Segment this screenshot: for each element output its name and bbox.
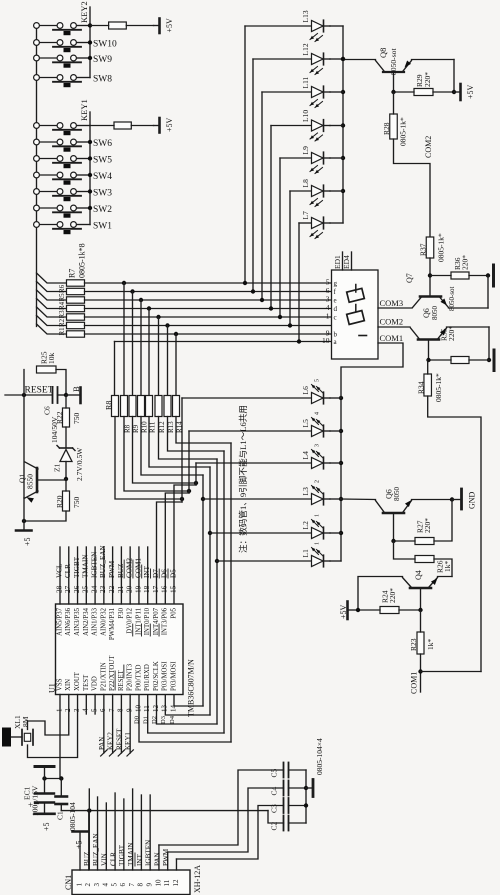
svg-text:26: 26 [73,585,81,593]
svg-text:D2: D2 [151,716,158,724]
LED L11 [260,76,330,302]
label COM3 [380,298,404,308]
svg-text:L1: L1 [301,549,310,558]
wire VDD column [88,789,90,870]
svg-text:IGBTEN: IGBTEN [145,839,153,866]
wire R37 to Q7 base [428,258,432,297]
svg-text:R6: R6 [58,284,66,293]
svg-text:+5V: +5V [165,117,174,132]
svg-text:Z1: Z1 [53,463,62,472]
svg-text:15: 15 [169,585,177,593]
label U1 [47,683,56,693]
svg-text:7: 7 [108,708,116,712]
label XH-12A [193,865,202,893]
wire VSS rail [42,776,63,780]
resistor R37 0805-1k* [419,233,446,262]
resistor R36 220* [430,255,490,279]
IC U1 TMB36C807M/N box [56,604,184,695]
svg-text:27: 27 [64,585,72,593]
svg-text:D4: D4 [169,715,176,724]
transistor Q6 (LED driver) [376,487,412,542]
switch KEY1 row [34,123,90,136]
wire D5 to bus [174,485,196,604]
svg-text:AIN0/P32: AIN0/P32 [100,607,107,636]
svg-text:GND: GND [467,491,476,509]
svg-text:0805-1k*8: 0805-1k*8 [77,243,86,278]
svg-text:10: 10 [154,879,162,887]
svg-text:220*: 220* [461,255,470,270]
label R7 [67,269,76,278]
switch SW10 [34,40,117,53]
svg-text:SW10: SW10 [93,40,117,50]
label KEY1 [79,99,89,121]
svg-text:10: 10 [134,705,142,713]
svg-text:VSS: VSS [56,678,63,691]
resistor R27 220* [391,500,452,545]
svg-text:P01/RXD: P01/RXD [144,664,151,691]
svg-text:d: d [334,305,338,313]
wire crystal to XOUT [28,695,78,758]
label COM1 [380,333,404,343]
svg-text:8050: 8050 [431,306,439,321]
label R8 group [104,401,113,410]
svg-text:INT: INT [143,565,151,578]
switch SW5 [34,156,113,169]
svg-text:4: 4 [82,708,90,712]
resistor R24 220* [356,588,423,614]
LED L1 [217,542,330,567]
labels D0-D4 [134,715,176,724]
LED L8 [288,179,330,328]
labels R8-R14 [123,421,183,433]
svg-text:BUZ_EAN: BUZ_EAN [92,832,100,866]
svg-text:4: 4 [102,883,110,887]
svg-text:1: 1 [75,883,83,887]
svg-text:P20/INT3: P20/INT3 [127,663,134,691]
wire COM2 net to R37 [394,139,431,237]
wire KEY1 bus [89,112,91,225]
svg-text:RESET: RESET [25,386,54,396]
LED L3 [203,480,330,505]
+5 supply (CN1) [73,832,88,850]
svg-text:9: 9 [125,708,133,712]
svg-text:PWM4/P31: PWM4/P31 [109,608,116,640]
wire U1 pin8 (RESET) [115,695,124,757]
svg-text:D1: D1 [142,716,149,724]
wire crystal to XIN [28,695,69,736]
svg-text:COM2: COM2 [126,558,134,578]
switch SW9 [34,55,113,68]
switch SW3 [34,189,113,202]
svg-text:L2: L2 [301,521,310,530]
svg-text:14: 14 [169,705,177,713]
svg-text:R23: R23 [409,638,418,651]
svg-text:3: 3 [73,708,81,712]
wire LED common bus (L7-L13) [330,26,345,223]
wire C3 to CN1 pin12 [176,806,283,871]
svg-text:+5: +5 [23,537,32,546]
wire C5 to CN1 pin10 [159,770,284,845]
svg-text:R28: R28 [382,122,391,135]
wire U1 pin1 VSS [59,695,61,779]
label 0805-1k*8 [77,243,86,278]
svg-text:8: 8 [137,883,145,887]
wire Q6 emitter to GND [412,497,461,501]
svg-text:L8: L8 [301,179,310,188]
svg-text:1: 1 [315,514,321,517]
resistor R26 1k* [394,541,453,577]
LED L2 [210,514,330,539]
crystal XL1 8M [2,715,33,746]
svg-text:Q8: Q8 [378,48,388,58]
resistor R35 220* [426,326,489,364]
svg-text:8050-sot: 8050-sot [448,286,456,311]
+5V supply (KEY1) [154,117,174,132]
svg-text:5: 5 [110,883,118,887]
wire Q8 emitter to +5V [412,60,455,93]
wire LED common bus (L1-L6) [330,396,343,561]
svg-text:23: 23 [99,585,107,593]
label TMB36C807M/N [186,659,195,717]
svg-text:8550: 8550 [26,474,35,489]
capacitors C2-C5 0805-104x4 [270,763,306,831]
svg-text:L6: L6 [301,386,310,395]
svg-text:1k*: 1k* [443,561,452,573]
U1 INT3 pin-name overline [123,665,125,678]
svg-text:COM2: COM2 [424,136,433,158]
LED L5 [189,412,330,437]
CN1 INT overline [134,853,136,866]
connector CN1 XH-12A box [72,870,190,895]
U1 top INT name overlines [133,624,159,636]
svg-text:10k: 10k [47,353,56,365]
CN1 net labels [83,832,170,866]
svg-text:+5V: +5V [339,604,348,619]
svg-text:P03/MOSI: P03/MOSI [162,661,169,691]
svg-text:AIN5/P37: AIN5/P37 [56,607,63,636]
svg-text:1: 1 [326,312,330,321]
wire C2 to ground rail [268,811,284,823]
svg-text:P30: P30 [118,607,125,618]
LED L9 [278,146,330,319]
LED L6 [182,379,330,404]
svg-text:24: 24 [90,585,98,593]
+5V supply (Q4) [339,602,358,620]
svg-text:R1: R1 [58,327,66,336]
label COM1 net [409,672,418,694]
wire U1 pin9 (KEY1) [124,695,133,757]
switch SW2 [34,205,113,218]
svg-text:SW3: SW3 [93,189,112,199]
wire Q6 emitter to +5V [447,327,492,362]
svg-text:P21/XTIN: P21/XTIN [100,662,107,691]
svg-text:XOUT: XOUT [74,671,81,691]
+5V supply (KEY2) [154,18,174,33]
terminal B [66,386,81,403]
svg-text:+5V: +5V [165,18,174,33]
svg-text:PWM: PWM [108,560,116,578]
svg-text:P03/MOSI: P03/MOSI [170,661,177,691]
svg-text:0805-104×4: 0805-104×4 [315,738,324,775]
display pin ED1 stub [333,252,342,270]
svg-text:22: 22 [108,585,116,593]
switch SW1 [34,222,113,235]
LED L10 [269,110,330,311]
wire U1 pin4 stub [85,695,87,715]
svg-text:2: 2 [84,883,92,887]
svg-text:D5: D5 [169,569,177,578]
svg-text:SW6: SW6 [93,139,112,149]
svg-text:COM2: COM2 [380,317,404,327]
svg-text:Q6: Q6 [422,308,431,318]
switch SW8 [34,75,113,88]
svg-text:P05: P05 [170,607,177,618]
display pin numbers and letters [322,278,338,347]
ground (C2-C5) [313,738,324,796]
resistor network R7 (R1-R7 0805-1k*8) [67,280,85,337]
svg-text:c: c [334,314,337,322]
wire Q8 collector to LED bus [341,57,376,61]
svg-text:TIGBT: TIGBT [73,556,81,578]
svg-text:100μ/16V: 100μ/16V [31,785,40,816]
LED L13 [243,10,330,285]
svg-text:2.7V/0.5W: 2.7V/0.5W [75,447,84,481]
svg-text:D0: D0 [134,716,141,724]
svg-text:KEY1: KEY1 [79,99,89,121]
svg-text:C1: C1 [56,811,65,820]
svg-text:L3: L3 [301,487,310,496]
+5V rail (R36) [492,265,495,286]
svg-text:220*: 220* [423,518,432,533]
svg-text:VDD: VDD [92,676,99,691]
svg-text:L13: L13 [301,10,310,22]
label CN1 [64,875,73,890]
resistor R34 0805-1k* [417,360,444,402]
svg-text:1k*: 1k* [426,639,435,651]
svg-text:20: 20 [126,585,134,593]
svg-text:TIGBT: TIGBT [118,844,126,866]
svg-text:D3: D3 [160,716,167,724]
svg-text:16: 16 [161,585,169,593]
wire data bus columns (nested) [182,398,231,742]
svg-text:PAN: PAN [153,851,161,866]
labels R1-R6 [58,284,66,335]
svg-text:CN1: CN1 [64,875,73,890]
svg-text:0805-1k*: 0805-1k* [437,233,446,262]
svg-text:SW2: SW2 [93,205,112,215]
display digit glyph 1 [347,285,365,303]
svg-text:TMAIN: TMAIN [82,554,90,578]
svg-text:VIN: VIN [101,852,109,866]
svg-text:COM1: COM1 [134,558,142,578]
LED L7 [297,211,330,344]
svg-text:220*: 220* [388,588,397,603]
wires CN1 pin stubs [89,789,168,870]
wire RESET node [5,370,66,499]
svg-text:P00/TXD: P00/TXD [135,664,142,691]
svg-text:Q7: Q7 [405,273,414,283]
svg-text:28: 28 [55,585,63,593]
transistor Q8 [376,48,412,92]
svg-text:L9: L9 [301,146,310,155]
U1 net label overlines [124,560,168,578]
svg-text:BUZ_EAN: BUZ_EAN [99,544,107,578]
wire R34 to COM1 net [428,396,481,672]
svg-text:U1: U1 [47,683,56,693]
svg-text:L12: L12 [301,43,310,55]
svg-text:9: 9 [145,883,153,887]
wire COM2 from display [378,326,410,328]
wire CN1 pin1 to +5 [79,833,81,871]
svg-text:PAN: PAN [98,737,106,750]
svg-text:18: 18 [143,585,151,593]
resistor R23 1k* [409,610,435,654]
svg-text:CLR: CLR [109,852,117,866]
svg-text:6: 6 [119,883,127,887]
wires segment lines down to resistor array R8 [115,281,179,396]
svg-text:750: 750 [72,413,81,425]
note (Chinese) [237,405,248,553]
display digit glyph 2 [347,305,365,325]
label KEY2 [79,1,89,23]
label COM2 [380,317,404,327]
svg-text:2: 2 [64,708,72,712]
svg-text:4: 4 [315,412,321,415]
transistor Q1 8550 [18,462,66,503]
svg-text:3: 3 [315,444,321,447]
transistor Q6 (COM2 driver) [411,306,447,361]
svg-text:L10: L10 [301,110,310,122]
svg-text:R22: R22 [55,411,64,424]
svg-text:10: 10 [322,336,330,345]
svg-text:INT: INT [136,853,144,866]
svg-text:SW9: SW9 [93,55,112,65]
svg-text:BUZ: BUZ [117,564,125,578]
wire Q4 emitter [438,576,453,578]
svg-text:1: 1 [315,542,321,545]
svg-text:L7: L7 [301,211,310,220]
LED L12 [251,43,330,294]
svg-text:C6: C6 [43,406,52,415]
svg-text:KEY1: KEY1 [124,732,132,750]
svg-text:R5: R5 [58,293,66,302]
svg-text:+5: +5 [74,840,83,849]
svg-text:D7: D7 [152,569,160,578]
svg-text:TMAIN: TMAIN [127,842,135,866]
zener Z1 2.7V/0.5W [53,427,84,481]
svg-text:R3: R3 [58,310,66,319]
wire COM1 node [418,654,481,692]
wire Q6 collector to LED bus [341,498,376,501]
svg-text:R4: R4 [58,301,66,310]
svg-text:D6: D6 [161,569,169,578]
svg-text:SW5: SW5 [93,156,112,166]
svg-text:0805-1k*: 0805-1k* [399,117,408,146]
switch SW6 [34,139,113,152]
switch KEY2 row [34,23,93,36]
LED L4 [196,444,330,469]
svg-text:21: 21 [117,585,125,593]
svg-text:8050-sot: 8050-sot [389,48,398,75]
wire U1 pin5 stub [94,695,96,715]
svg-text:KEY2: KEY2 [107,732,115,750]
svg-text:25: 25 [82,585,90,593]
wires R8 array to data bus columns [115,417,231,502]
wire Q4 collector to +5V [358,577,403,611]
svg-text:5: 5 [315,379,321,382]
wire U1 pin7 (KEY2) [107,695,116,757]
resistor KEY1 pull-up [90,122,154,129]
svg-text:注：数码管1、9引脚不能与L1～L6共用: 注：数码管1、9引脚不能与L1～L6共用 [237,405,248,553]
wire Q7 emitter [449,276,489,309]
svg-text:ED1: ED1 [333,255,342,269]
svg-text:XH-12A: XH-12A [193,865,202,893]
resistor R25 10k [37,351,57,373]
U1 top pin names [56,607,177,640]
svg-text:+5: +5 [42,822,51,831]
svg-text:19: 19 [134,585,142,593]
resistor R22 750 [55,395,81,427]
svg-text:VCL: VCL [55,564,63,578]
U1 top net labels [55,544,177,578]
wire C4 to CN1 pin11 [168,788,284,852]
svg-text:PWM: PWM [162,848,170,866]
svg-text:L4: L4 [301,451,310,460]
svg-text:R2: R2 [58,318,66,327]
svg-text:8050: 8050 [393,487,401,502]
svg-text:BUZ: BUZ [83,852,91,866]
svg-text:AIN6/P36: AIN6/P36 [65,607,72,636]
wire R20 to +5 [22,498,66,523]
svg-text:5: 5 [90,708,98,712]
svg-text:TEST: TEST [83,674,90,691]
ground GND [462,489,477,509]
svg-text:11: 11 [143,705,151,712]
+5V rail (R35) [493,350,496,371]
svg-text:0805-104: 0805-104 [68,802,77,831]
+5 supply (EC1) [35,814,55,831]
svg-text:L11: L11 [301,76,310,88]
capacitor EC1 100u/16V [23,767,54,817]
svg-text:RESET: RESET [115,728,123,750]
svg-text:1: 1 [55,708,63,712]
wire D6 to bus [165,493,189,604]
svg-text:AIN1/P33: AIN1/P33 [92,607,99,636]
svg-text:0805-1k*: 0805-1k* [434,373,443,402]
svg-text:8: 8 [117,708,125,712]
resistor network R8-R14 (vertical boxes) [112,396,180,417]
svg-text:Q6: Q6 [384,489,393,499]
svg-text:COM1: COM1 [380,333,404,343]
label COM2 net [424,136,433,158]
svg-text:ED4: ED4 [342,255,351,269]
svg-text:17: 17 [152,585,160,593]
svg-text:CLR: CLR [64,564,72,578]
+5V supply (Q8) [454,84,475,100]
wire segment data lines a-g to display [85,283,332,342]
wire ground rail bottom [61,808,268,812]
wire U1 pin6 (PAN) [98,695,107,757]
wires U1 top pin stubs [60,547,148,604]
svg-text:2: 2 [315,480,321,483]
CN1 pin numbers [75,879,179,887]
resistor KEY2 pull-up [90,22,154,29]
svg-text:B: B [71,386,81,392]
svg-text:g: g [334,280,338,288]
transistor Q4 [403,570,438,610]
wire COM1 from display [341,343,403,398]
wire C2-C5 common [304,770,312,823]
